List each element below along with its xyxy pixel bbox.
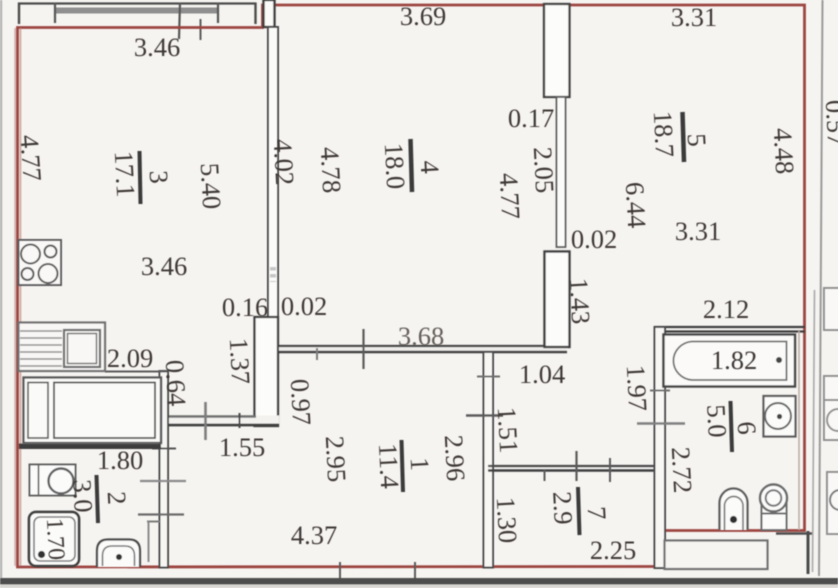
svg-text:4.48: 4.48 (768, 127, 800, 175)
toilet room6 (720, 489, 748, 531)
tick on bottom red x340 (339, 562, 341, 578)
tick on corridor right wall y415 (466, 414, 503, 416)
svg-text:18.7: 18.7 (648, 110, 680, 158)
drainboard hatch lines (20, 331, 62, 366)
room7 label fraction 7/2.9 (547, 487, 612, 535)
svg-text:3.46: 3.46 (134, 32, 180, 62)
svg-text:0.57: 0.57 (820, 99, 838, 147)
tick on room7 wall x610 (609, 458, 611, 482)
toilet room2 (97, 540, 140, 568)
svg-text:2.72: 2.72 (666, 446, 698, 494)
wall room4/room5 pier column (1.43) (545, 252, 570, 348)
tick on 1.55 wall x239 (239, 413, 241, 428)
tick on bathroom6 wall y390 (650, 390, 670, 392)
svg-text:1.70: 1.70 (41, 517, 69, 560)
kitchen sink (64, 330, 100, 367)
room3 label fraction 3/17.1 (109, 150, 175, 204)
svg-text:2.12: 2.12 (703, 294, 749, 324)
room2 label fraction 2/3.0 (67, 475, 132, 523)
room5 label fraction 5/18.7 (648, 110, 713, 162)
window tick x55 (54, 3, 56, 24)
svg-text:3.0: 3.0 (67, 479, 99, 514)
bathroom6 right inner wall line (798, 331, 800, 530)
tick on 1.55 wall x205 (204, 402, 207, 440)
svg-text:6: 6 (732, 421, 763, 436)
svg-text:1.97: 1.97 (621, 364, 653, 412)
tick on mid wall x363 (362, 329, 364, 369)
room6 label fraction 6/5.0 (701, 401, 762, 452)
svg-text:0.02: 0.02 (281, 291, 327, 321)
washbasin room2 (30, 465, 76, 496)
svg-text:0.16: 0.16 (222, 292, 268, 322)
svg-text:1.04: 1.04 (519, 359, 565, 389)
svg-text:0.97: 0.97 (285, 378, 317, 426)
svg-text:4.77: 4.77 (14, 134, 47, 182)
svg-text:6.44: 6.44 (620, 181, 652, 229)
svg-text:4.37: 4.37 (291, 520, 337, 550)
room3 bottom wall (1.55) (162, 416, 279, 427)
shower tray room2 (29, 512, 79, 566)
neighbour fixture square top right (824, 288, 838, 330)
svg-text:1: 1 (405, 457, 436, 472)
svg-text:3.69: 3.69 (400, 1, 446, 31)
tick on room2 wall y514 (138, 513, 184, 515)
neighbour fixture sink right edge (824, 376, 838, 440)
door dashes on room3/room4 wall (270, 267, 276, 282)
neighbour fixture bottom right edge (827, 472, 838, 534)
svg-text:2.96: 2.96 (439, 434, 471, 482)
dark vertical right below red corner (807, 531, 810, 574)
svg-text:11.4: 11.4 (373, 443, 405, 490)
wall room4/room5 thin partition (2.05) (557, 97, 566, 247)
window tick x256 (254, 3, 256, 25)
wall kitchen/bath2 horizontal (19, 444, 161, 450)
svg-text:3.31: 3.31 (675, 216, 721, 246)
svg-text:17.1: 17.1 (109, 150, 141, 198)
svg-text:3.31: 3.31 (671, 2, 717, 32)
svg-text:2.09: 2.09 (107, 343, 153, 373)
dimension tick 3.46 top x200 (200, 19, 202, 40)
wall room3/room4 (268, 27, 278, 317)
svg-text:5.0: 5.0 (701, 404, 733, 439)
tick on corridor right wall y376 (477, 376, 500, 378)
tick on bathroom6 wall y423 (637, 422, 685, 425)
tick on bottom red x415 (414, 562, 416, 578)
neighbour wall second line (813, 290, 815, 572)
mid corridor wall (3.68) (279, 346, 567, 353)
window tick x218 (217, 3, 219, 24)
svg-text:0.02: 0.02 (571, 224, 617, 254)
tick on room2 wall y481 (140, 480, 186, 482)
wall room3/room4 upper stub above red (264, 0, 275, 27)
svg-text:2.95: 2.95 (320, 435, 352, 483)
svg-text:4.78: 4.78 (315, 146, 347, 194)
bathtub room6 (664, 335, 796, 387)
photo left edge line (0, 0, 2, 588)
svg-text:2: 2 (102, 491, 133, 506)
tick on room7 wall x544 (544, 470, 546, 481)
bathroom6 top wall (654, 327, 805, 332)
svg-text:1.43: 1.43 (564, 277, 596, 325)
wall room4/room5 window pier top (544, 4, 570, 97)
room4 label fraction 4/18.0 (379, 139, 446, 192)
svg-text:2.9: 2.9 (547, 491, 579, 526)
bidet room6 (760, 485, 787, 531)
room1 label fraction 1/11.4 (373, 440, 435, 492)
tick on room7 wall x576 (575, 451, 577, 481)
svg-text:0.64: 0.64 (160, 359, 192, 407)
windowsill rect below red bottom-right (665, 541, 768, 570)
svg-text:3: 3 (144, 170, 175, 185)
wall room2/corridor vertical (160, 371, 169, 568)
stove (19, 240, 62, 285)
svg-text:5: 5 (682, 133, 713, 148)
svg-text:1.80: 1.80 (97, 445, 143, 475)
door jamb step room2 wall (147, 521, 160, 523)
wardrobe cabinet (24, 378, 162, 444)
svg-text:4: 4 (415, 160, 446, 175)
pier column below room3/room4 wall (255, 317, 279, 426)
svg-text:18.0: 18.0 (379, 142, 411, 190)
balcony window glazing bar (55, 8, 218, 14)
kitchen counter with drainboard (19, 323, 106, 372)
svg-text:1.55: 1.55 (219, 432, 265, 462)
window tick x180 (179, 3, 180, 40)
red inner soft line left (20, 28, 22, 566)
svg-text:5.40: 5.40 (195, 162, 227, 210)
svg-text:7: 7 (582, 506, 613, 521)
svg-text:0.17: 0.17 (508, 103, 554, 133)
kitchen niche top line (105, 371, 168, 373)
photo bottom lightened strip (0, 585, 838, 588)
svg-text:1.82: 1.82 (711, 345, 757, 375)
svg-text:4.02: 4.02 (268, 138, 300, 186)
svg-text:4.77: 4.77 (494, 172, 526, 220)
dark line under red bottom-right (776, 532, 812, 535)
neighbour wall line right edge (819, 0, 823, 576)
bathroom6 left wall (655, 327, 666, 568)
window tick x19 (18, 3, 20, 25)
svg-text:3.68: 3.68 (398, 321, 444, 351)
tick on room2 wall y448 (152, 448, 176, 450)
svg-text:3.46: 3.46 (141, 251, 187, 281)
svg-text:1.30: 1.30 (491, 496, 523, 544)
corridor right wall (x 483-494) (484, 352, 494, 568)
svg-text:2.05: 2.05 (528, 146, 560, 194)
washbasin room6 (764, 396, 796, 437)
svg-text:1.51: 1.51 (492, 406, 524, 454)
photo bottom edge line (0, 578, 838, 585)
svg-text:1.37: 1.37 (224, 337, 256, 385)
room7 top wall (488, 466, 658, 471)
balcony window top line (18, 2, 256, 4)
small tick on mid wall x317 (316, 348, 318, 360)
svg-text:2.25: 2.25 (590, 535, 636, 565)
